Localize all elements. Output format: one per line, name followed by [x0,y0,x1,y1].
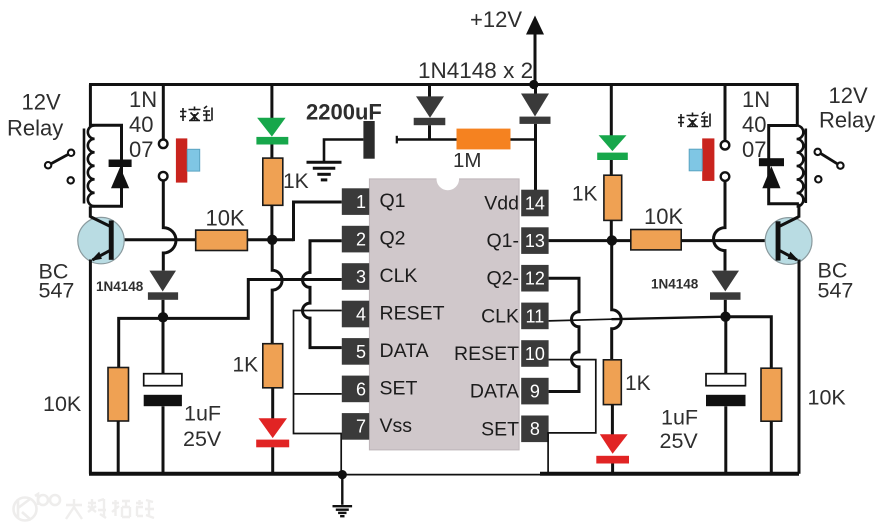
label BC 547 left [39,260,75,303]
svg-text:1: 1 [356,192,366,212]
svg-text:547: 547 [39,279,75,303]
node junction A left [267,235,277,245]
wire 1M row [397,138,535,141]
IC U1 CD4013 body [369,168,519,450]
svg-text:25V: 25V [660,429,699,453]
svg-text:1K: 1K [572,183,598,206]
ground symbol main [333,475,353,517]
wire junction B to 10K left [119,318,163,367]
watermark text 大数跨境 [66,499,154,519]
wire IC pin13 Q1- to junction C right [549,239,612,242]
wire IC pin2 Q2 to pin5 DATA with hops [303,241,342,348]
svg-text:40: 40 [129,112,153,137]
diode D3 1N4148 rail left [414,85,446,140]
wire below pushbutton with hop over base wire left [163,181,176,271]
svg-text:07: 07 [129,137,153,162]
svg-text:5: 5 [356,342,366,362]
svg-text:10K: 10K [644,204,683,229]
svg-text:1N4148: 1N4148 [96,279,144,294]
svg-text:9: 9 [530,382,540,402]
capacitor C1 2200uF [324,121,397,161]
wire 10K to rail right [770,421,773,474]
pin 3 [342,263,369,290]
svg-text:Vss: Vss [380,415,413,437]
pin 11 [521,303,548,330]
diode D1 1N4007 flyback left [109,160,132,189]
wire bottom ground rail [89,472,343,476]
svg-text:1K: 1K [283,170,309,193]
wire 1K to junction C [610,220,613,240]
resistor R2 1K left upper [263,158,283,205]
wire base net right [612,239,776,242]
label 12V Relay left [7,90,63,141]
pin 4 [342,301,369,328]
node junction B left [158,312,168,322]
resistor R1 1M [457,129,511,150]
wire LED to resistor [270,145,273,159]
pin 8 [521,416,548,443]
pin numbers left [356,192,366,437]
pin 12 [521,265,548,292]
svg-text:12V: 12V [22,90,61,115]
resistor R5 1K left lower [263,344,283,388]
diode D4 1N4148 rail right [520,85,551,191]
wire IC pin10 RESET to pin8 SET tie [548,360,596,474]
wire junction D to 10K right [726,317,772,369]
transistor Q2 BC547 right [765,217,812,265]
wire 1K to LED red right [611,405,614,435]
LED D10 red right [596,434,629,463]
svg-text:3: 3 [356,267,366,287]
svg-text:10: 10 [525,344,545,364]
wire junction B to IC pin3 CLK with hop [163,280,342,319]
pushbutton S2 cap right [689,138,714,181]
wire LED red to rail right [611,464,614,474]
svg-text:40: 40 [742,112,766,137]
svg-text:1M: 1M [453,149,481,172]
svg-text:10K: 10K [808,386,847,410]
resistor R9 10K right lower [761,368,782,421]
svg-text:Relay: Relay [819,108,875,133]
wire relay to collector left [89,206,92,217]
svg-text:13: 13 [525,231,545,251]
wire junction C down with hop to 1K lower right [612,240,622,359]
relay K1 (12V Relay left) [84,125,122,206]
svg-text:DATA: DATA [470,381,519,403]
wire right rail top [796,85,799,127]
wire 10K to ground rail left [117,421,120,474]
watermark logo [14,494,61,521]
svg-text:Vdd: Vdd [484,193,519,215]
node junction D right [720,312,730,322]
svg-text:RESET: RESET [380,303,445,325]
svg-text:07: 07 [742,137,766,162]
svg-text:1K: 1K [625,372,651,395]
switch S1 pushbutton terminals left [159,140,168,181]
pushbutton S1 cap left [176,138,200,182]
label 1N4007 left [129,87,157,162]
svg-text:1K: 1K [233,354,259,377]
svg-text:12V: 12V [829,83,868,108]
svg-text:6: 6 [356,379,366,399]
transistor Q1 BC547 left [78,217,124,264]
capacitor C3 1uF right [706,317,746,474]
diode D2 1N4007 flyback right [759,158,784,188]
svg-text:7: 7 [356,417,366,437]
wire below pushbutton with hop right [714,181,726,271]
node junction C right [607,235,617,245]
svg-text:10K: 10K [206,206,245,231]
pin 14 [521,190,548,217]
+12V supply arrow [526,16,544,83]
svg-text:1N: 1N [129,87,157,112]
svg-text:Relay: Relay [7,116,63,141]
svg-text:CLK: CLK [380,265,418,287]
svg-text:12: 12 [525,269,545,289]
wire base net left [114,238,294,241]
node ground junction [338,470,347,479]
wire IC pin12 Q2- to pin9 DATA with hops [549,278,579,391]
svg-text:14: 14 [525,193,545,213]
wire pushbutton branch right [724,85,727,141]
svg-text:4: 4 [356,304,366,324]
resistor R8 1K right lower [603,360,621,405]
svg-text:+12V: +12V [470,7,522,32]
pin 5 [342,338,369,365]
LED D5 green left [256,85,288,145]
svg-text:CLK: CLK [481,305,519,327]
pin labels left [380,190,445,437]
wire junction A to 1K lower left [272,240,282,343]
svg-text:Q2-: Q2- [486,268,519,290]
pin numbers right [525,193,545,439]
svg-text:1N4148: 1N4148 [651,277,699,292]
label 1uF 25V left [183,402,222,452]
svg-text:2200uF: 2200uF [306,100,382,125]
wire resistor to junction A [270,205,273,240]
resistor R3 10K base left [196,230,248,250]
svg-text:DATA: DATA [380,340,429,362]
svg-text:1N: 1N [742,87,770,112]
LED D9 red left [256,418,289,447]
svg-text:Q1-: Q1- [486,230,519,252]
switch relay contacts left [45,150,74,184]
wire IC pin4 RESET to pin6 SET tie [294,311,342,474]
resistor R7 10K base right [631,230,681,250]
svg-text:25V: 25V [183,427,222,451]
label 按钮 left (drawn glyphs) [180,106,213,121]
resistor R6 1K right upper [604,175,622,220]
pin 9 [521,378,548,405]
diode D8 1N4148 right [710,271,741,317]
capacitor C2 1uF left [144,317,182,474]
pin labels right [454,193,519,441]
pin 1 [342,188,369,215]
label 1uF 25V right [660,406,699,454]
node +12V junction [529,80,538,89]
wire relay to collector right [797,204,800,218]
svg-text:SET: SET [380,377,418,399]
resistor R4 10K left lower [108,368,129,422]
wire 1K to LED red left [271,388,274,419]
svg-text:1uF: 1uF [184,402,221,426]
svg-text:2: 2 [356,230,366,250]
pin 7 [342,413,369,440]
svg-text:1uF: 1uF [661,406,698,430]
switch relay contacts right [815,149,844,183]
svg-text:547: 547 [818,279,854,303]
wire junction A to IC pin1 [294,202,342,241]
svg-text:SET: SET [481,418,519,440]
svg-text:Q1: Q1 [380,190,406,212]
label 按钮 right (drawn glyphs) [678,112,710,127]
svg-text:11: 11 [526,306,545,326]
wire left rail top [89,85,92,127]
wire top +12V rail [89,83,799,86]
svg-text:RESET: RESET [454,343,519,365]
label 1N4007 right [742,87,770,162]
diode D7 1N4148 left [148,271,178,317]
pin 13 [521,227,548,254]
LED D6 green right [597,85,628,161]
pin 10 [521,340,548,367]
svg-text:10K: 10K [43,392,82,416]
wire pushbutton branch left [162,85,165,140]
wire LED red to rail left [271,447,274,474]
relay K2 (12V Relay right) [769,126,806,207]
pin 6 [342,376,369,403]
ground symbol 2200uF [307,162,342,180]
wire emitter to ground rail left [89,260,92,474]
switch S2 pushbutton terminals right [721,141,730,181]
svg-text:1N4148 x 2: 1N4148 x 2 [418,58,533,83]
pin 2 [342,226,369,253]
wire emitter to rail right [798,260,801,474]
wire IC pin11 CLK to junction D right [549,319,612,321]
svg-text:8: 8 [530,419,540,439]
label BC 547 right [818,259,854,303]
label 12V Relay right [819,83,875,133]
wire LED to 1K right [610,160,613,175]
svg-text:Q2: Q2 [380,228,406,250]
